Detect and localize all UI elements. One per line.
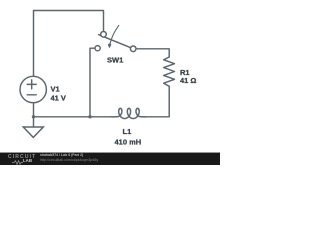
watermark bar (0, 153, 220, 165)
V1 minus sign (27, 94, 36, 96)
wire L1 to R1 bottom (146, 86, 169, 117)
V1 plus sign (27, 80, 36, 89)
junction node V1-ground-bottom net (32, 115, 35, 118)
voltage source V1 circle (20, 76, 46, 102)
logo waveform squiggle (12, 160, 23, 165)
ground symbol (23, 127, 43, 137)
switch SW1 top terminal circle (101, 32, 107, 38)
switch SW1 arrow head (108, 43, 112, 48)
svg-text:410 mH: 410 mH (115, 137, 142, 146)
svg-text:41 Ω: 41 Ω (180, 76, 196, 85)
svg-text:L1: L1 (123, 127, 132, 136)
wire bottom net V1 to L1 (34, 103, 112, 127)
watermark bar soft top edge (0, 152, 220, 153)
switch SW1 actuation arrow arc (110, 25, 119, 44)
switch SW1 left throw terminal circle (95, 46, 100, 51)
switch SW1 common terminal circle (130, 46, 136, 52)
watermark url text (40, 159, 98, 163)
switch SW1 blade (99, 35, 131, 48)
svg-text:V1: V1 (51, 85, 60, 94)
svg-text:SW1: SW1 (107, 55, 123, 64)
svg-text:41 V: 41 V (51, 93, 66, 102)
resistor R1 zigzag (164, 57, 175, 86)
inductor L1 coil (111, 108, 146, 118)
wire top from V1 to SW1 (34, 11, 104, 77)
wire SW1 left throw down to bottom net (90, 48, 95, 117)
watermark title text (40, 154, 83, 158)
junction node SW1 throw-bottom net (88, 115, 91, 118)
CircuitLab logo (8, 155, 36, 160)
wire SW1 common to R1 top (136, 49, 169, 57)
